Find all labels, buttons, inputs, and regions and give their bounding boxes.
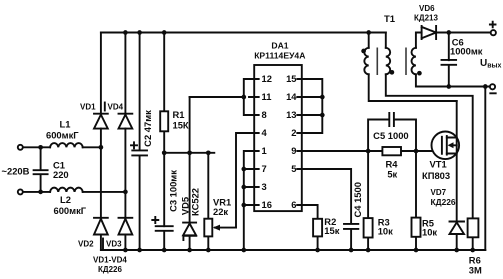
pin stubs left bbox=[249, 79, 259, 205]
minus terminal bbox=[490, 84, 495, 89]
svg-text:11: 11 bbox=[262, 91, 272, 102]
svg-text:Т1: Т1 bbox=[384, 14, 396, 25]
svg-text:8: 8 bbox=[262, 109, 267, 120]
resistor R4 bbox=[382, 147, 401, 155]
svg-text:6: 6 bbox=[291, 199, 296, 210]
top rail bbox=[101, 32, 386, 34]
node VD5 top bbox=[187, 150, 192, 155]
T1 W3 polarity dot bbox=[417, 71, 422, 76]
capacitor C6 bbox=[442, 33, 457, 87]
wire pin 4 to VR1 wiper bbox=[236, 133, 249, 228]
node rail C4b bbox=[349, 248, 354, 253]
svg-text:VD3: VD3 bbox=[106, 240, 122, 249]
svg-text:7: 7 bbox=[262, 163, 267, 174]
wire pin 9 bbox=[307, 150, 442, 152]
wire to plus terminal bbox=[449, 32, 491, 34]
resistor R1 bbox=[163, 33, 165, 227]
svg-text:4: 4 bbox=[262, 127, 268, 138]
node rail C2 bbox=[137, 30, 142, 35]
node rail VD5b bbox=[187, 248, 192, 253]
node L1 bridge bbox=[99, 145, 104, 150]
svg-text:VD6: VD6 bbox=[419, 4, 435, 13]
svg-text:VD1-VD4: VD1-VD4 bbox=[93, 256, 127, 265]
IC DA1 KR1114EU4A box bbox=[254, 65, 302, 211]
node pin 16 bbox=[241, 203, 246, 208]
capacitor C1 bbox=[34, 147, 48, 192]
svg-text:3: 3 bbox=[262, 181, 267, 192]
transformer T1 winding W2 bbox=[386, 33, 473, 219]
diode VD2 bbox=[94, 218, 108, 235]
svg-text:C4 1500: C4 1500 bbox=[352, 182, 363, 217]
input terminal bottom bbox=[18, 189, 23, 194]
wire bracket pins 15-14-13-2 bbox=[307, 79, 322, 133]
VR1 wiper arrow bbox=[215, 227, 236, 229]
plus C2 bbox=[131, 142, 137, 148]
svg-text:КД226: КД226 bbox=[431, 197, 456, 207]
capacitor C5 bbox=[368, 113, 416, 151]
diode VD3 bbox=[119, 218, 133, 235]
node pin 11 bbox=[241, 95, 246, 100]
svg-text:15: 15 bbox=[286, 73, 296, 84]
capacitor C4 bbox=[297, 169, 358, 250]
node C1 top bbox=[38, 145, 43, 150]
node minus branch bbox=[483, 84, 488, 89]
resistor R6 bbox=[472, 237, 474, 250]
bottom rail bbox=[101, 249, 485, 251]
T1 core left bbox=[376, 48, 378, 76]
capacitor C3 bbox=[156, 226, 173, 250]
node gate bbox=[414, 149, 419, 154]
VT1 stubs bbox=[447, 138, 457, 154]
VT1 arrow bbox=[448, 142, 454, 148]
inductor L1 bbox=[50, 143, 83, 147]
svg-text:14: 14 bbox=[286, 91, 297, 102]
input terminal top bbox=[18, 145, 23, 150]
wire input bottom to bridge bbox=[23, 191, 125, 193]
svg-text:VD1: VD1 bbox=[80, 103, 96, 112]
svg-text:~220В: ~220В bbox=[2, 166, 30, 177]
node rail R6b bbox=[470, 248, 475, 253]
plus terminal bbox=[491, 30, 496, 35]
svg-text:2: 2 bbox=[291, 127, 296, 138]
node rail R2b bbox=[315, 248, 320, 253]
wire pin11 to VD5 bbox=[190, 96, 244, 98]
capacitor C2 bbox=[132, 33, 147, 251]
node rail R1 bbox=[162, 30, 167, 35]
diode VD4 bbox=[119, 114, 133, 129]
svg-text:КС522: КС522 bbox=[189, 188, 200, 216]
wire bridge column A bbox=[100, 33, 102, 251]
resistor R5 bbox=[415, 151, 417, 250]
node pin 3 bbox=[241, 185, 246, 190]
node pin 13 bbox=[320, 113, 325, 118]
inductor L2 bbox=[50, 188, 83, 192]
pin stubs right bbox=[297, 79, 307, 205]
node C1 bottom bbox=[38, 190, 43, 195]
VT1 drain-source line bbox=[456, 101, 458, 222]
svg-text:10к: 10к bbox=[378, 225, 393, 236]
node rail T1 bbox=[366, 30, 371, 35]
svg-text:КД213: КД213 bbox=[414, 14, 438, 23]
diode VD7 bbox=[450, 222, 465, 251]
wire minus down bbox=[484, 87, 486, 251]
transformer T1 winding W3 bbox=[416, 33, 490, 87]
label separator bottom bbox=[102, 239, 104, 249]
node VD6-C6 bbox=[446, 30, 451, 35]
wire bracket pins 12-11-8 bbox=[244, 79, 249, 115]
svg-text:1: 1 bbox=[262, 145, 267, 156]
svg-text:22к: 22к bbox=[213, 206, 228, 217]
transformer T1 winding W1 bbox=[369, 33, 457, 102]
T1 W1 polarity dot bbox=[361, 49, 366, 54]
VT1 channel bar bbox=[446, 136, 448, 155]
node R1-C3 bbox=[162, 150, 167, 155]
svg-text:12: 12 bbox=[262, 73, 272, 84]
svg-text:КР1114ЕУ4А: КР1114ЕУ4А bbox=[254, 51, 305, 61]
svg-text:КД226: КД226 bbox=[98, 265, 122, 274]
resistor R2 bbox=[297, 205, 317, 250]
T1 core right bbox=[405, 48, 407, 76]
node rail VD4 bbox=[123, 30, 128, 35]
svg-text:600мкГ: 600мкГ bbox=[54, 205, 87, 216]
diode VD1 bbox=[94, 114, 108, 129]
wire bridge column B bbox=[124, 33, 126, 251]
svg-text:L2: L2 bbox=[60, 194, 71, 205]
diode VD6 bbox=[422, 26, 449, 39]
node rail VR1b bbox=[206, 248, 211, 253]
wire input top to bridge bbox=[23, 146, 101, 148]
node rail R5b bbox=[414, 248, 419, 253]
node rail R3b bbox=[366, 248, 371, 253]
potentiometer VR1 bbox=[207, 153, 209, 250]
svg-text:1000мк: 1000мк bbox=[450, 45, 483, 56]
label plus bbox=[490, 22, 496, 28]
node VR1 top bbox=[206, 150, 211, 155]
svg-text:15к: 15к bbox=[324, 225, 339, 236]
wire vref node bbox=[164, 152, 214, 154]
svg-text:L1: L1 bbox=[60, 119, 71, 130]
node rail C2b bbox=[137, 248, 142, 253]
wire bracket pins 1-7-3-16 to ground bbox=[244, 151, 249, 250]
node pin 7 bbox=[241, 167, 246, 172]
svg-text:600мкГ: 600мкГ bbox=[46, 130, 79, 141]
svg-text:VD7: VD7 bbox=[431, 188, 447, 197]
svg-text:C5 1000: C5 1000 bbox=[373, 130, 408, 141]
svg-text:VD2: VD2 bbox=[78, 240, 94, 249]
node rail IC ground bbox=[241, 248, 246, 253]
svg-text:C3 100мк: C3 100мк bbox=[168, 170, 179, 212]
T1 W2 polarity dot bbox=[390, 70, 395, 75]
svg-text:DA1: DA1 bbox=[271, 41, 288, 51]
node L2 bridge bbox=[123, 190, 128, 195]
svg-text:VT1: VT1 bbox=[430, 159, 447, 170]
svg-text:220: 220 bbox=[53, 169, 69, 180]
label separator top bbox=[104, 103, 106, 111]
svg-text:5к: 5к bbox=[387, 169, 397, 180]
resistor R3 bbox=[367, 151, 369, 250]
transistor VT1 bbox=[432, 132, 460, 160]
output minus wire bbox=[446, 84, 451, 89]
node rail C3b bbox=[162, 248, 167, 253]
svg-text:КП803: КП803 bbox=[422, 170, 450, 181]
svg-text:3М: 3М bbox=[469, 264, 482, 275]
svg-text:15К: 15К bbox=[173, 119, 189, 130]
node pin9-R3 bbox=[366, 149, 371, 154]
svg-text:C2 47мк: C2 47мк bbox=[142, 110, 153, 147]
zener VD5 bbox=[183, 97, 196, 250]
svg-text:10к: 10к bbox=[422, 227, 437, 238]
svg-text:5: 5 bbox=[291, 163, 296, 174]
svg-text:16: 16 bbox=[262, 199, 272, 210]
svg-text:9: 9 bbox=[291, 145, 296, 156]
node rail VD7b bbox=[454, 248, 459, 253]
label minus bbox=[490, 92, 495, 94]
plus C3 bbox=[152, 217, 158, 223]
svg-text:VD4: VD4 bbox=[108, 103, 124, 112]
node rail VD3 bbox=[123, 248, 128, 253]
svg-text:R1: R1 bbox=[173, 109, 185, 120]
svg-text:13: 13 bbox=[286, 109, 296, 120]
node pin 14 bbox=[320, 95, 325, 100]
VT1 gate bar bbox=[441, 137, 443, 154]
